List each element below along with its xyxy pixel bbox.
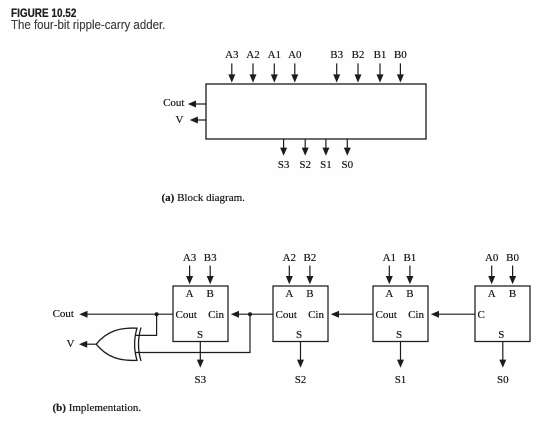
node B3 label (b) xyxy=(204,253,217,264)
wire Cout output arrow (a) xyxy=(188,101,206,108)
wire A0 input arrow (b) xyxy=(488,266,495,285)
wire B2 input arrow (b) xyxy=(306,266,313,285)
node A1 label (a) xyxy=(268,50,281,61)
pin label S (U1) xyxy=(396,330,402,341)
node S2 label (b) xyxy=(295,375,307,386)
pin label A (U3) xyxy=(186,289,194,300)
wire S0 output arrow (b) xyxy=(499,342,506,368)
wire S1 output arrow (b) xyxy=(397,342,404,368)
wire B2 input arrow (a) xyxy=(355,63,362,82)
node B1 label (a) xyxy=(374,50,387,61)
caption (b) Implementation. xyxy=(53,403,142,414)
wire B1 input arrow (b) xyxy=(406,266,413,285)
wire A2 input arrow (a) xyxy=(250,63,257,82)
wire B0 input arrow (a) xyxy=(397,63,404,82)
full adder U1 (bits A1 B1) xyxy=(373,286,428,342)
node A3 label (b) xyxy=(183,253,196,264)
wire S0 output arrow (a) xyxy=(344,139,351,156)
pin label Cin (U2) xyxy=(308,310,324,321)
wire A2 input arrow (b) xyxy=(286,266,293,285)
node Cout label (b) xyxy=(53,309,74,320)
full adder U3 (bits A3 B3) xyxy=(173,286,228,342)
junction dot on Cout wire xyxy=(155,312,159,316)
node A0 label (b) xyxy=(485,253,498,264)
pin label B (U2) xyxy=(306,289,313,300)
adder block (a) xyxy=(206,84,426,139)
node B1 label (b) xyxy=(403,253,416,264)
node Cout label (a) xyxy=(163,98,184,109)
wire from junction down to XOR lower input xyxy=(136,314,251,352)
wire U3.Cout to Cout arrow xyxy=(79,311,173,318)
node A2 label (a) xyxy=(246,50,259,61)
wire XOR output to V arrow xyxy=(79,341,97,348)
wire V output arrow (a) xyxy=(190,117,206,124)
wire B1 input arrow (a) xyxy=(377,63,384,82)
node B0 label (a) xyxy=(394,50,407,61)
pin label Cout (U3) xyxy=(176,310,197,321)
wire B0 input arrow (b) xyxy=(509,266,516,285)
figure title FIGURE 10.52 xyxy=(11,8,76,20)
full adder U2 (bits A2 B2) xyxy=(273,286,328,342)
pin label Cin (U1) xyxy=(408,310,424,321)
full adder U0 (bits A0 B0) xyxy=(475,286,530,342)
node S3 label (a) xyxy=(278,160,290,171)
wire carry U0.C to U1.Cin xyxy=(431,311,475,318)
pin label S (U2) xyxy=(296,330,302,341)
pin label B (U1) xyxy=(406,289,413,300)
wire from junction down to XOR upper input xyxy=(136,314,157,335)
node S1 label (a) xyxy=(320,160,332,171)
wire B3 input arrow (a) xyxy=(333,63,340,82)
node S3 label (b) xyxy=(194,375,206,386)
node S0 label (a) xyxy=(341,160,353,171)
node V label (a) xyxy=(176,115,184,126)
node A2 label (b) xyxy=(283,253,296,264)
node V label (b) xyxy=(67,339,75,350)
pin label A (U0) xyxy=(488,289,496,300)
wire S3 output arrow (a) xyxy=(280,139,287,156)
node S2 label (a) xyxy=(299,160,311,171)
wire A3 input arrow (a) xyxy=(228,63,235,82)
pin label A (U2) xyxy=(285,289,293,300)
pin label C (U0) xyxy=(478,310,485,321)
pin label B (U0) xyxy=(509,289,516,300)
pin label B (U3) xyxy=(207,289,214,300)
caption (a) Block diagram. xyxy=(162,193,245,204)
wire A1 input arrow (b) xyxy=(386,266,393,285)
wire carry U1.Cout to U2.Cin xyxy=(331,311,373,318)
pin label S (U3) xyxy=(197,330,203,341)
node A3 label (a) xyxy=(225,50,238,61)
XOR gate U4 (overflow detect) xyxy=(96,328,141,362)
pin label Cin (U3) xyxy=(208,310,224,321)
wire A0 input arrow (a) xyxy=(291,63,298,82)
node A0 label (a) xyxy=(288,50,301,61)
pin label A (U1) xyxy=(385,289,393,300)
wire A3 input arrow (b) xyxy=(186,266,193,285)
junction dot on carry wire U2.Cout-U3.Cin xyxy=(248,312,252,316)
pin label Cout (U2) xyxy=(276,310,297,321)
pin label S (U0) xyxy=(498,330,504,341)
node B2 label (b) xyxy=(303,253,316,264)
pin label Cout (U1) xyxy=(376,310,397,321)
wire S2 output arrow (a) xyxy=(302,139,309,156)
wire S3 output arrow (b) xyxy=(197,342,204,368)
node S1 label (b) xyxy=(395,375,407,386)
wire S1 output arrow (a) xyxy=(322,139,329,156)
node A1 label (b) xyxy=(383,253,396,264)
node S0 label (b) xyxy=(497,375,509,386)
node B0 label (b) xyxy=(506,253,519,264)
figure subtitle xyxy=(11,19,165,32)
wire B3 input arrow (b) xyxy=(207,266,214,285)
node B3 label (a) xyxy=(330,50,343,61)
wire S2 output arrow (b) xyxy=(297,342,304,368)
node B2 label (a) xyxy=(352,50,365,61)
wire A1 input arrow (a) xyxy=(271,63,278,82)
wire carry U2.Cout to U3.Cin xyxy=(231,311,273,318)
